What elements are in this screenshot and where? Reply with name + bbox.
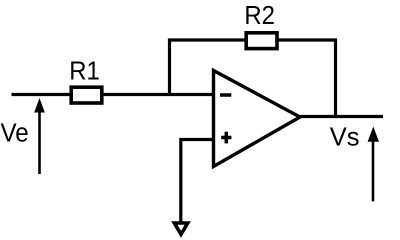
svg-text:Ve: Ve bbox=[1, 119, 29, 148]
svg-text:R1: R1 bbox=[69, 56, 100, 85]
svg-text:Vs: Vs bbox=[330, 123, 360, 151]
svg-text:R2: R2 bbox=[244, 1, 275, 30]
